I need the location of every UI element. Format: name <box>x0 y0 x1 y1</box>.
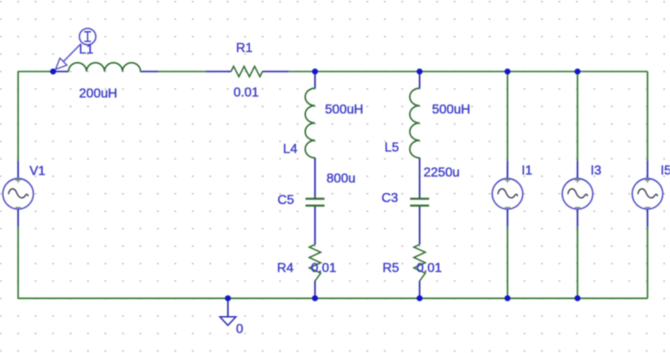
svg-text:L4: L4 <box>283 141 297 156</box>
svg-text:0: 0 <box>236 321 243 336</box>
junction bottom at I1 branch <box>505 295 511 301</box>
junction top at I1 branch <box>505 69 511 75</box>
resistor R4 <box>309 245 320 299</box>
inductor L4 <box>305 72 315 199</box>
junction top at I3 branch <box>575 69 581 75</box>
junction bottom at I3 branch <box>575 295 581 301</box>
wire left edge vertical (V1 down to bottom corner) <box>17 227 19 298</box>
svg-text:500uH: 500uH <box>325 102 363 117</box>
current source I5 <box>632 161 663 227</box>
wire I1 branch lower <box>507 227 509 298</box>
svg-text:0.01: 0.01 <box>417 260 442 275</box>
svg-text:200uH: 200uH <box>79 86 117 101</box>
junction top at L1 left <box>50 69 56 75</box>
junction bottom at R4 <box>312 295 318 301</box>
current source I1 <box>492 161 523 227</box>
wire right edge vertical (I5 down to bottom corner) <box>647 227 649 298</box>
svg-text:C3: C3 <box>382 190 399 205</box>
wire I1 branch upper <box>507 72 509 161</box>
junction top at L5 branch <box>417 69 423 75</box>
capacitor C3 <box>410 199 429 245</box>
current probe marker <box>56 28 96 69</box>
junction bottom at R5 <box>417 295 423 301</box>
resistor R1 <box>206 66 289 76</box>
junction bottom at ground <box>225 295 231 301</box>
current source I3 <box>562 161 593 227</box>
wire right edge vertical (top corner down to I5) <box>647 72 649 161</box>
voltage source V1 <box>3 161 34 227</box>
svg-text:0.01: 0.01 <box>234 85 259 100</box>
capacitor C5 <box>306 199 325 245</box>
svg-text:2250u: 2250u <box>424 165 460 180</box>
wire top-left horizontal (left corner to L1 junction) <box>18 71 53 73</box>
wire I3 branch upper <box>577 72 579 161</box>
junction top at L4 branch <box>312 69 318 75</box>
resistor R5 <box>414 245 425 299</box>
svg-text:I1: I1 <box>522 163 533 178</box>
svg-text:C5: C5 <box>278 192 295 207</box>
svg-text:500uH: 500uH <box>432 102 470 117</box>
svg-text:I3: I3 <box>591 163 602 178</box>
wire I3 branch lower <box>577 227 579 298</box>
svg-text:I5: I5 <box>661 163 670 178</box>
svg-text:R5: R5 <box>383 260 400 275</box>
svg-text:V1: V1 <box>30 163 46 178</box>
svg-text:L5: L5 <box>385 140 399 155</box>
svg-text:0.01: 0.01 <box>311 260 336 275</box>
wire top middle (L1 right pin to R1 left pin) <box>158 71 206 73</box>
inductor L1 <box>53 63 158 72</box>
wire top right (R1 right pin to right corner) <box>289 71 648 73</box>
svg-text:R1: R1 <box>236 40 253 55</box>
wire bottom horizontal (full width) <box>18 297 647 299</box>
svg-text:R4: R4 <box>277 260 294 275</box>
wire left edge vertical (top corner down to V1) <box>17 72 19 161</box>
ground symbol <box>220 298 236 325</box>
svg-text:800u: 800u <box>327 171 356 186</box>
inductor L5 <box>410 72 420 199</box>
